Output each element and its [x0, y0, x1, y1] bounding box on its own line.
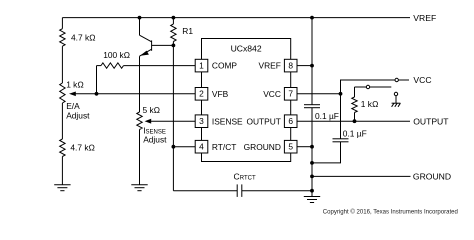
wire: riser from wiper node up to 100k [96, 66, 98, 94]
transistor Q1 emitter with arrow [140, 49, 152, 56]
transistor Q1 base wire [152, 44, 174, 46]
wire: bottom rail CRTCT to ground column [242, 190, 312, 192]
resistor 100 k feedback [101, 63, 124, 68]
svg-text:ISENSE: ISENSE [212, 116, 243, 126]
svg-text:4.7 kΩ: 4.7 kΩ [71, 33, 96, 43]
svg-text:2: 2 [199, 89, 204, 99]
svg-text:R1: R1 [182, 26, 193, 36]
pin 1 COMP box [195, 59, 208, 72]
svg-text:VREF: VREF [413, 13, 436, 23]
svg-text:Adjust: Adjust [143, 134, 167, 144]
pin 6 OUTPUT box [284, 115, 297, 128]
svg-text:3: 3 [199, 116, 204, 126]
svg-text:5: 5 [288, 142, 293, 152]
wire: COMP line to pin 1 [124, 65, 196, 67]
node: top rail / VREF column junction [310, 16, 314, 20]
IC U1 UCx842 body [202, 39, 291, 162]
svg-text:GROUND: GROUND [413, 172, 451, 182]
wire: GROUND terminal line [312, 175, 411, 177]
wire: pin 6 OUTPUT line to terminal [297, 120, 410, 122]
svg-text:8: 8 [288, 61, 293, 71]
capacitor 0.1 uF VREF bypass [304, 104, 320, 106]
wire: RT/CT pin 4 line [173, 146, 195, 148]
node: ground terminal junction [310, 175, 314, 179]
svg-text:7: 7 [288, 89, 293, 99]
wire: blade corner down to 1k [354, 87, 356, 97]
resistor 1 k load [352, 97, 357, 113]
node: top rail / R1 junction [172, 16, 176, 20]
ground (below 5k pot) [131, 184, 147, 186]
wire: emitter down to 5k pot [139, 56, 141, 112]
resistor 4.7 k (upper divider) [60, 29, 65, 47]
node: 1k to OUTPUT line [353, 119, 357, 123]
node: RT/CT pin junction [172, 145, 176, 149]
transistor Q1 collector wire [139, 18, 141, 36]
wire: left rail segments [61, 18, 63, 29]
wire: pin 8 to VREF column [297, 65, 312, 67]
wire: pot wiper to VFB (pin 2 line) [75, 93, 195, 95]
pin 5 GROUND box [284, 140, 297, 153]
earth ground (switch) [392, 102, 401, 104]
wire: COMP line left part [97, 65, 102, 67]
svg-text:VREF: VREF [259, 61, 281, 71]
svg-text:GROUND: GROUND [244, 142, 281, 152]
svg-text:COMP: COMP [212, 61, 238, 71]
svg-text:Adjust: Adjust [66, 110, 90, 120]
wire: VCC cap return to ground column [312, 142, 341, 163]
wire: pin 5 to ground column [297, 146, 312, 148]
svg-text:0.1 µF: 0.1 µF [315, 111, 339, 121]
svg-text:CRTCT: CRTCT [234, 172, 256, 182]
svg-text:1: 1 [199, 61, 204, 71]
node: pin 8 junction [310, 64, 314, 68]
pin 8 VREF box [284, 59, 297, 72]
node: top rail / collector junction [138, 16, 142, 20]
pin 2 VFB box [195, 88, 208, 101]
pin 4 RT/CT box [195, 140, 208, 153]
wire: VCC node up and right to switch [341, 80, 395, 94]
svg-text:1 kΩ: 1 kΩ [66, 79, 84, 89]
pin 7 VCC box [284, 88, 297, 101]
switch pivot contact [366, 85, 369, 88]
wire: switch to VCC terminal [399, 79, 410, 81]
svg-text:OUTPUT: OUTPUT [246, 116, 280, 126]
node: cap return junction [310, 161, 314, 165]
wire: 5k bottom to ground [139, 130, 141, 185]
svg-text:1 kΩ: 1 kΩ [361, 99, 379, 109]
capacitor 0.1 uF VCC bypass [340, 94, 342, 139]
node: bottom rail junction [310, 189, 314, 193]
switch blade wire [355, 86, 392, 88]
ground (left rail) [54, 184, 70, 186]
svg-text:4: 4 [199, 142, 204, 152]
potentiometer 1 k E/A Adjust [60, 83, 65, 103]
potentiometer 5 k ISENSE Adjust [137, 112, 142, 130]
svg-text:100 kΩ: 100 kΩ [103, 50, 130, 60]
svg-text:4.7 kΩ: 4.7 kΩ [70, 142, 95, 152]
svg-text:VCC: VCC [263, 89, 281, 99]
svg-text:VFB: VFB [212, 89, 229, 99]
node: wiper / 100k riser junction [95, 92, 99, 96]
wiper arrow of 5k pot [145, 119, 152, 124]
wire: RT/CT net vertical [172, 45, 174, 190]
svg-text:OUTPUT: OUTPUT [413, 116, 449, 126]
svg-text:Copyright © 2016, Texas Instru: Copyright © 2016, Texas Instruments Inco… [323, 208, 458, 215]
capacitor CRTCT [236, 184, 238, 197]
ground (main, bottom right) [304, 196, 320, 198]
resistor R1 timing [172, 18, 174, 24]
svg-text:UCx842: UCx842 [231, 43, 262, 53]
node: VCC junction [339, 92, 343, 96]
resistor 4.7 k (lower divider) [60, 139, 65, 157]
wire: pin 7 to VCC node [297, 93, 341, 95]
wiper arrow of E/A pot [69, 92, 76, 97]
switch lower contact to earth [394, 92, 397, 95]
wire: bottom rail to CRTCT [173, 190, 237, 192]
wire: VREF/ground column [311, 18, 313, 105]
switch contact on VCC line [395, 78, 398, 81]
svg-text:VCC: VCC [413, 75, 431, 85]
node: pin 5 junction [310, 145, 314, 149]
svg-text:5 kΩ: 5 kΩ [143, 105, 161, 115]
pin 3 ISENSE box [195, 115, 208, 128]
transistor Q1 base bar [151, 40, 153, 50]
svg-text:6: 6 [288, 116, 293, 126]
wire: VREF top rail [62, 17, 410, 19]
svg-text:0.1 µF: 0.1 µF [343, 129, 367, 139]
svg-text:RT/CT: RT/CT [212, 142, 237, 152]
wire: 5k wiper to ISENSE pin 3 [151, 120, 196, 122]
node: R1 bottom / base junction [172, 44, 176, 48]
